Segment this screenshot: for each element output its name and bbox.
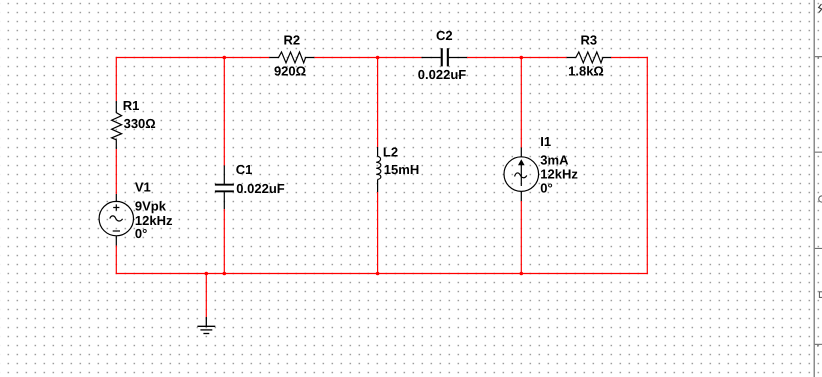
svg-text:0°: 0°: [540, 181, 552, 196]
svg-text:0.022uF: 0.022uF: [236, 181, 284, 196]
svg-text:0°: 0°: [135, 226, 147, 241]
svg-text:12kHz: 12kHz: [540, 167, 578, 182]
svg-text:R1: R1: [123, 98, 140, 113]
svg-text:L2: L2: [383, 145, 398, 160]
svg-text:1.8kΩ: 1.8kΩ: [568, 64, 604, 79]
svg-text:C1: C1: [236, 162, 253, 177]
svg-text:R2: R2: [283, 33, 300, 48]
svg-text:330Ω: 330Ω: [124, 116, 156, 131]
svg-text:V1: V1: [135, 180, 151, 195]
svg-text:I1: I1: [540, 134, 551, 149]
svg-text:C2: C2: [436, 28, 453, 43]
svg-text:3mA: 3mA: [540, 153, 569, 168]
svg-text:920Ω: 920Ω: [274, 64, 306, 79]
svg-text:15mH: 15mH: [384, 162, 419, 177]
svg-text:0.022uF: 0.022uF: [418, 67, 466, 82]
svg-text:R3: R3: [580, 33, 597, 48]
svg-text:9Vpk: 9Vpk: [135, 199, 167, 214]
